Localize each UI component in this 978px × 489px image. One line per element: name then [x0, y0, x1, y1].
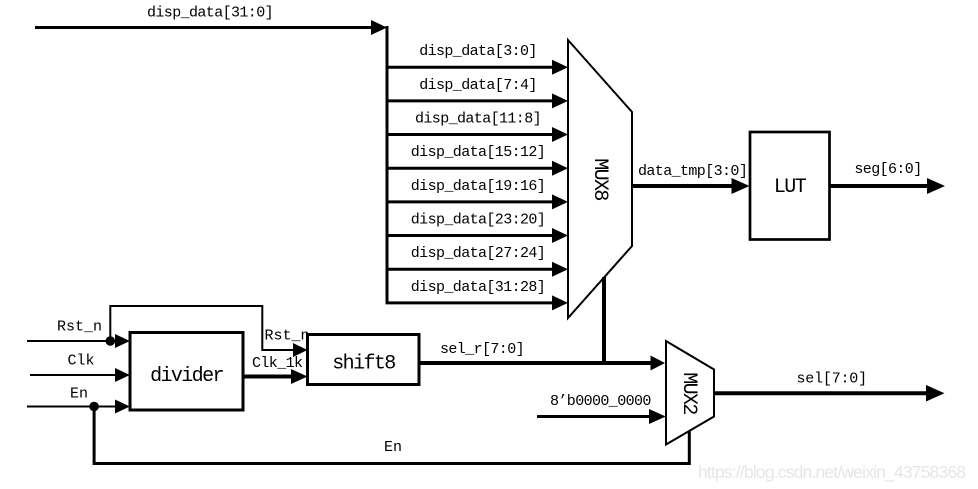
- svg-text:disp_data[31:0]: disp_data[31:0]: [147, 5, 273, 22]
- svg-text:En: En: [70, 386, 88, 403]
- svg-text:Rst_n: Rst_n: [265, 328, 310, 345]
- svg-text:disp_data[7:4]: disp_data[7:4]: [419, 77, 537, 94]
- svg-text:disp_data[15:12]: disp_data[15:12]: [411, 144, 545, 161]
- svg-text:Clk: Clk: [68, 353, 95, 370]
- svg-text:shift8: shift8: [332, 353, 395, 376]
- svg-text:disp_data[11:8]: disp_data[11:8]: [415, 111, 541, 128]
- svg-text:MUX8: MUX8: [588, 158, 611, 200]
- svg-text:sel_r[7:0]: sel_r[7:0]: [440, 341, 524, 358]
- svg-text:data_tmp[3:0]: data_tmp[3:0]: [638, 163, 747, 180]
- svg-text:LUT: LUT: [774, 176, 807, 199]
- svg-text:disp_data[31:28]: disp_data[31:28]: [411, 279, 545, 296]
- svg-text:disp_data[27:24]: disp_data[27:24]: [411, 245, 545, 262]
- svg-text:divider: divider: [150, 365, 223, 388]
- svg-text:Clk_1k: Clk_1k: [252, 355, 303, 372]
- svg-text:https://blog.csdn.net/weixin_4: https://blog.csdn.net/weixin_43758368: [698, 462, 966, 483]
- svg-text:disp_data[3:0]: disp_data[3:0]: [419, 43, 537, 60]
- svg-text:En: En: [384, 439, 402, 456]
- svg-text:MUX2: MUX2: [677, 372, 700, 414]
- svg-text:sel[7:0]: sel[7:0]: [797, 371, 867, 388]
- svg-text:8’b0000_0000: 8’b0000_0000: [550, 393, 651, 410]
- svg-text:disp_data[23:20]: disp_data[23:20]: [411, 212, 545, 229]
- svg-text:seg[6:0]: seg[6:0]: [854, 161, 921, 178]
- svg-text:Rst_n: Rst_n: [57, 319, 102, 336]
- svg-text:disp_data[19:16]: disp_data[19:16]: [411, 178, 545, 195]
